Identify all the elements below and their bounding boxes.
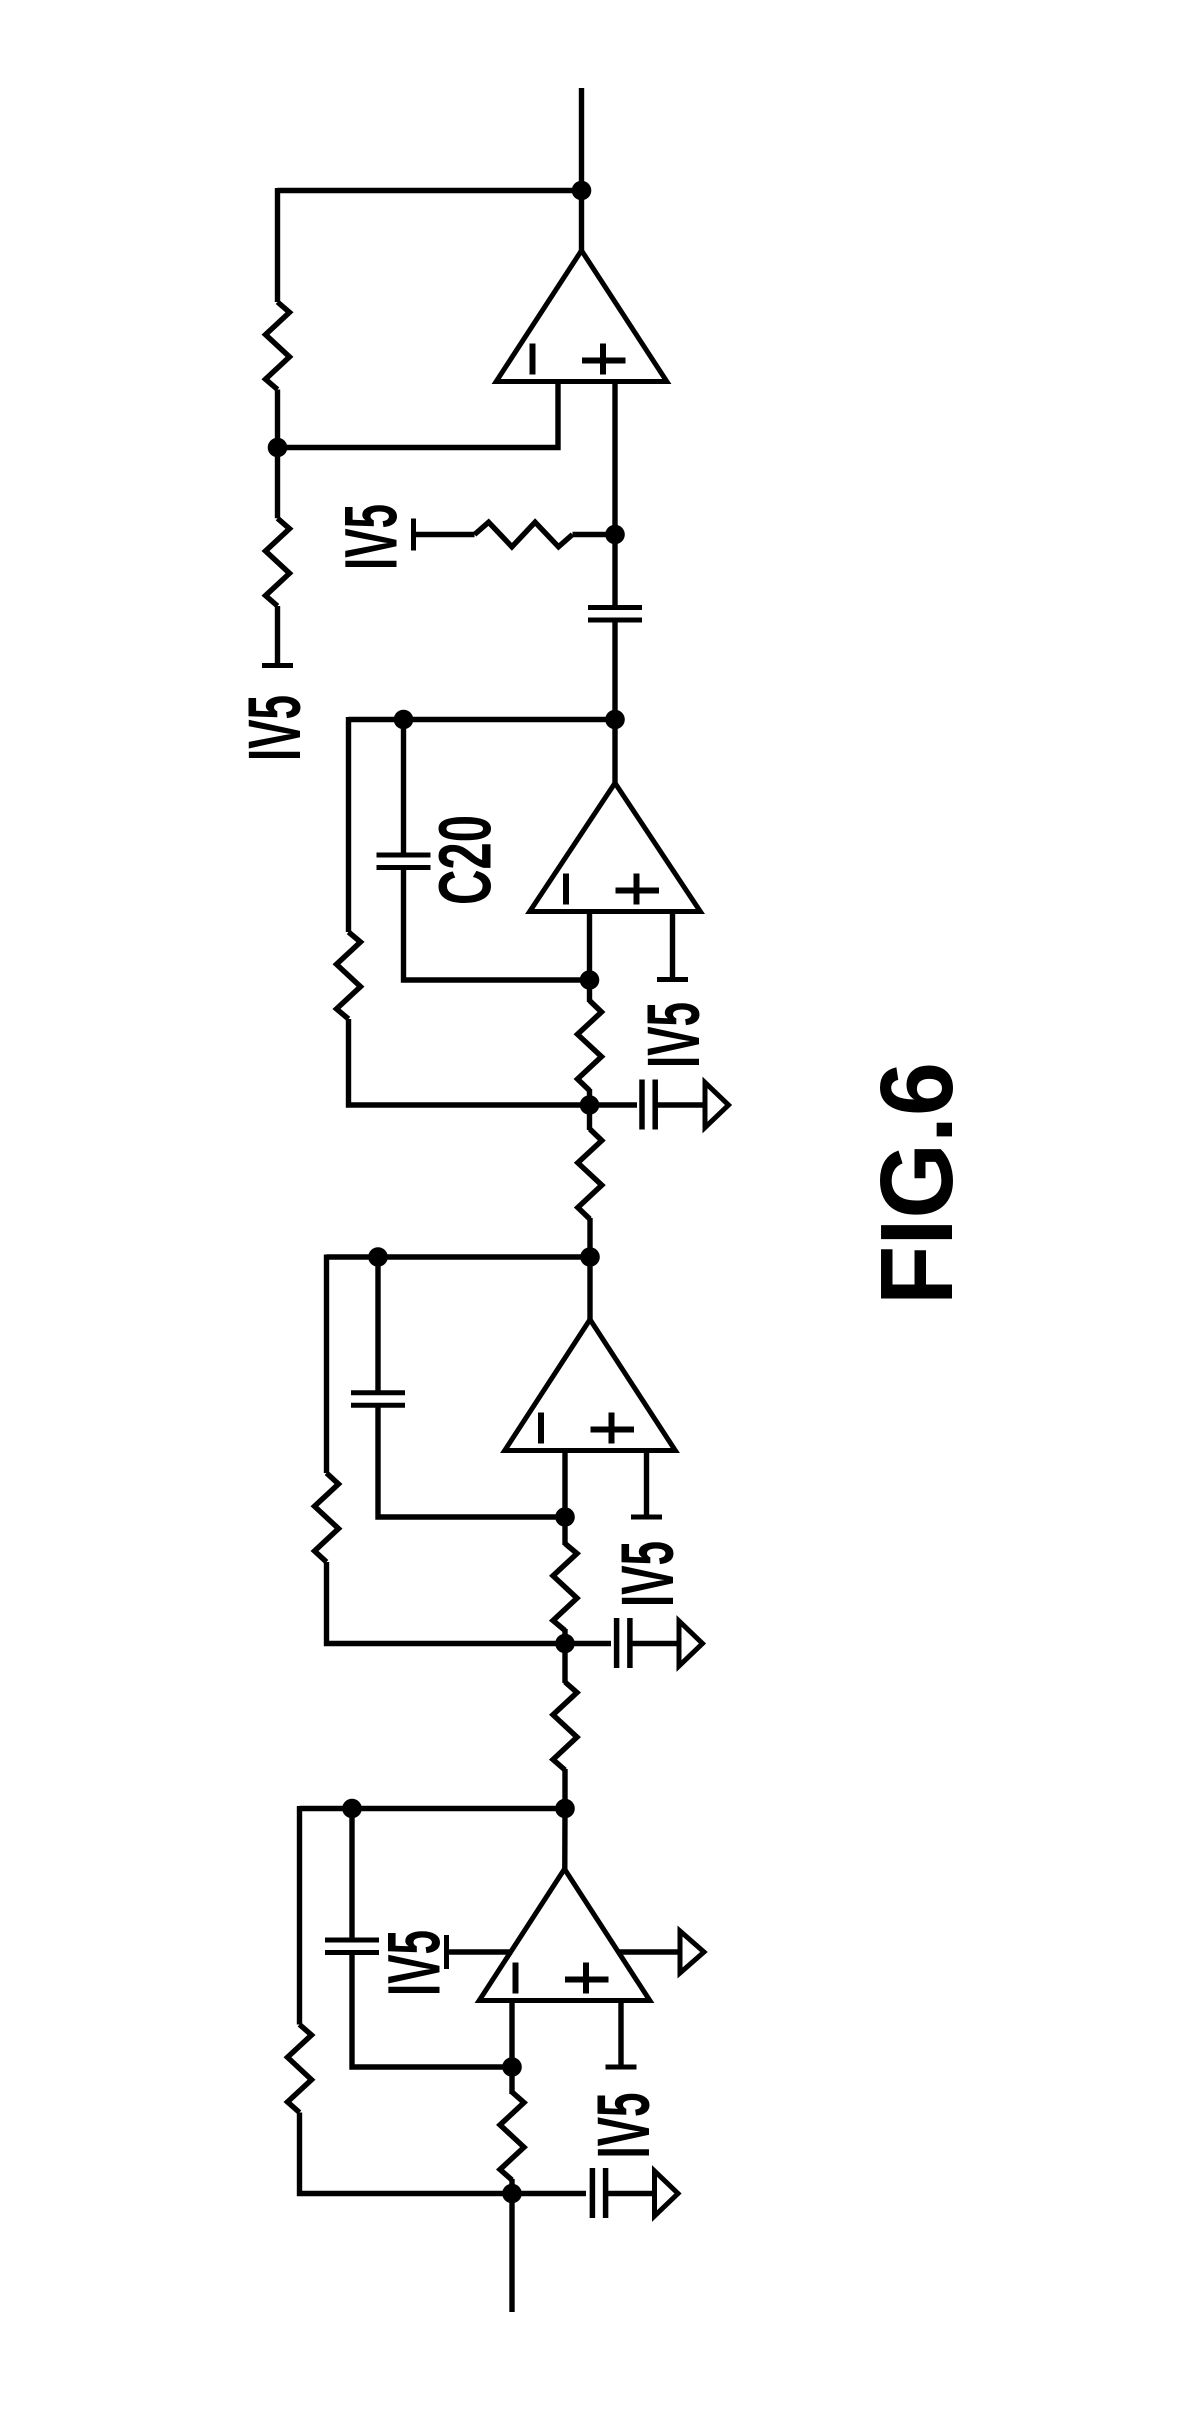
wire series resistor upper lead (587, 1105, 592, 1130)
terminal IV5 U1 ref (444, 1935, 449, 1969)
capacitor coupling C stage4 (588, 608, 642, 621)
op-amp U2 (505, 1320, 676, 1451)
wire U2 fb left upper (324, 1255, 329, 1474)
wire U3 fb left lower (349, 1019, 590, 1105)
wire apex U1 (562, 1809, 568, 1870)
node U3 divider (580, 1095, 600, 1115)
wire U1 fb left lower (300, 2113, 513, 2194)
op-amp U3 (530, 783, 701, 912)
svg-text:IV5: IV5 (373, 1930, 456, 1996)
node U2 minus net (555, 1507, 575, 1527)
node U3 output (605, 710, 625, 730)
wire input terminal (509, 2194, 514, 2313)
wire series resistor lower lead (587, 1218, 592, 1257)
op-amp U1 (479, 1869, 650, 2001)
wire U3 fb left upper (346, 717, 351, 932)
terminal IV5 U1 plus (606, 2065, 637, 2070)
resistor bias U4 plus (475, 522, 573, 547)
wire U2 gain leads (562, 1517, 567, 1545)
wire U2 cap top lead (375, 1257, 380, 1393)
resistor U1 gain (500, 2092, 524, 2180)
terminal IV5 rail bottom (262, 663, 293, 668)
resistor U3 gain (578, 1001, 602, 1091)
node U2 fb cap top (368, 1247, 388, 1267)
node U4 plus input (605, 525, 625, 545)
capacitor shunt U1 (592, 2168, 605, 2218)
wire feedback top (278, 188, 582, 193)
capacitor C20 (377, 855, 431, 868)
svg-text:FIG.6: FIG.6 (859, 1062, 974, 1305)
wire apex U3 (612, 720, 617, 786)
wire series resistor upper lead 2 (562, 1644, 567, 1684)
wire U1 output arrow lead (619, 1949, 679, 1954)
wire apex U2 (587, 1257, 592, 1322)
node C20 top (394, 710, 414, 730)
wire cap bottom lead (612, 620, 617, 720)
capacitor shunt U2 (617, 1618, 630, 1668)
svg-text:IV5: IV5 (330, 504, 413, 570)
svg-text:IV5: IV5 (632, 1002, 715, 1068)
wire inverting input U4 (278, 382, 559, 448)
node U1 output (555, 1799, 575, 1819)
wire shunt cap to ground U2 (630, 1641, 677, 1646)
svg-text:IV5: IV5 (233, 695, 316, 761)
wire U1 fb left upper (297, 1806, 302, 2025)
wire rail to U1 left side (447, 1949, 512, 1954)
svg-text:C20: C20 (424, 815, 507, 905)
wire U2 fb left lower (327, 1562, 566, 1644)
resistor series stage3-4 (553, 1682, 577, 1770)
wire U2 plus input (644, 1451, 649, 1515)
resistor feedback U4 (266, 302, 290, 390)
wire shunt cap to ground U3 (655, 1102, 703, 1107)
ground connector U3 (705, 1083, 729, 1128)
svg-text:IV5: IV5 (606, 1541, 689, 1607)
node inverting input net U4 (268, 438, 288, 458)
wire U1 gain leads (509, 2067, 514, 2094)
wire U3 output top (349, 717, 616, 722)
wire to rail stub (275, 606, 280, 663)
resistor U2 gain (553, 1544, 577, 1631)
wire resistor to node (573, 532, 616, 537)
wire rail to resistor (414, 532, 475, 537)
wire shunt cap to ground U1 (606, 2191, 653, 2196)
ground connector U1 (655, 2171, 679, 2216)
wire U2 cap bottom lead (378, 1405, 565, 1518)
wire feedback left upper (275, 188, 280, 302)
wire U2 output top (327, 1254, 591, 1259)
op-amp U4 (496, 251, 667, 382)
node input net (502, 2184, 522, 2204)
resistor feedback U2 (315, 1473, 339, 1562)
svg-text:IV5: IV5 (582, 2093, 665, 2159)
capacitor feedback U1 (325, 1940, 379, 1953)
terminal IV5 rail stub (411, 519, 416, 551)
wire U1 cap top lead (349, 1809, 354, 1941)
wire U3 inverting input (587, 912, 592, 981)
wire output terminal (579, 88, 584, 251)
wire U1 output top (300, 1806, 566, 1811)
node U1 fb cap top (342, 1799, 362, 1819)
terminal IV5 U3 plus (657, 977, 688, 982)
ground connector U2 (679, 1621, 703, 1666)
resistor feedback U3 (337, 932, 361, 1019)
terminal IV5 U2 plus (631, 1515, 662, 1520)
wire U3 plus input (670, 912, 675, 978)
wire series resistor lower lead 2 (562, 1769, 567, 1809)
capacitor shunt U3 (642, 1080, 655, 1130)
wire to shunt cap U3 (590, 1102, 638, 1107)
capacitor feedback U2 (351, 1393, 405, 1405)
resistor series stage2-3 (578, 1129, 602, 1219)
wire U1 cap bottom lead (352, 1952, 512, 2067)
wire U4 to left resistor (275, 448, 280, 519)
wire to shunt cap U1 (512, 2191, 586, 2196)
wire U1 inverting input (509, 2001, 514, 2068)
wire to shunt cap U2 (565, 1641, 611, 1646)
node U2 output (580, 1247, 600, 1267)
output connector arrow (680, 1931, 704, 1973)
wire feedback left lower (275, 390, 280, 448)
wire non-inverting input U4 (612, 382, 617, 535)
node output junction (572, 181, 592, 201)
resistor divider lower (266, 518, 290, 606)
wire U2 inverting input (562, 1451, 567, 1518)
node U3 minus net (580, 970, 600, 990)
node U1 minus net (502, 2057, 522, 2077)
wire C20 bottom lead (404, 867, 590, 980)
wire gain resistor leads (587, 980, 592, 1002)
node U2 divider (555, 1634, 575, 1654)
wire cap top lead (612, 535, 617, 609)
wire U1 plus input (618, 2001, 623, 2065)
resistor feedback U1 (288, 2025, 312, 2113)
wire C20 top lead (401, 720, 406, 856)
